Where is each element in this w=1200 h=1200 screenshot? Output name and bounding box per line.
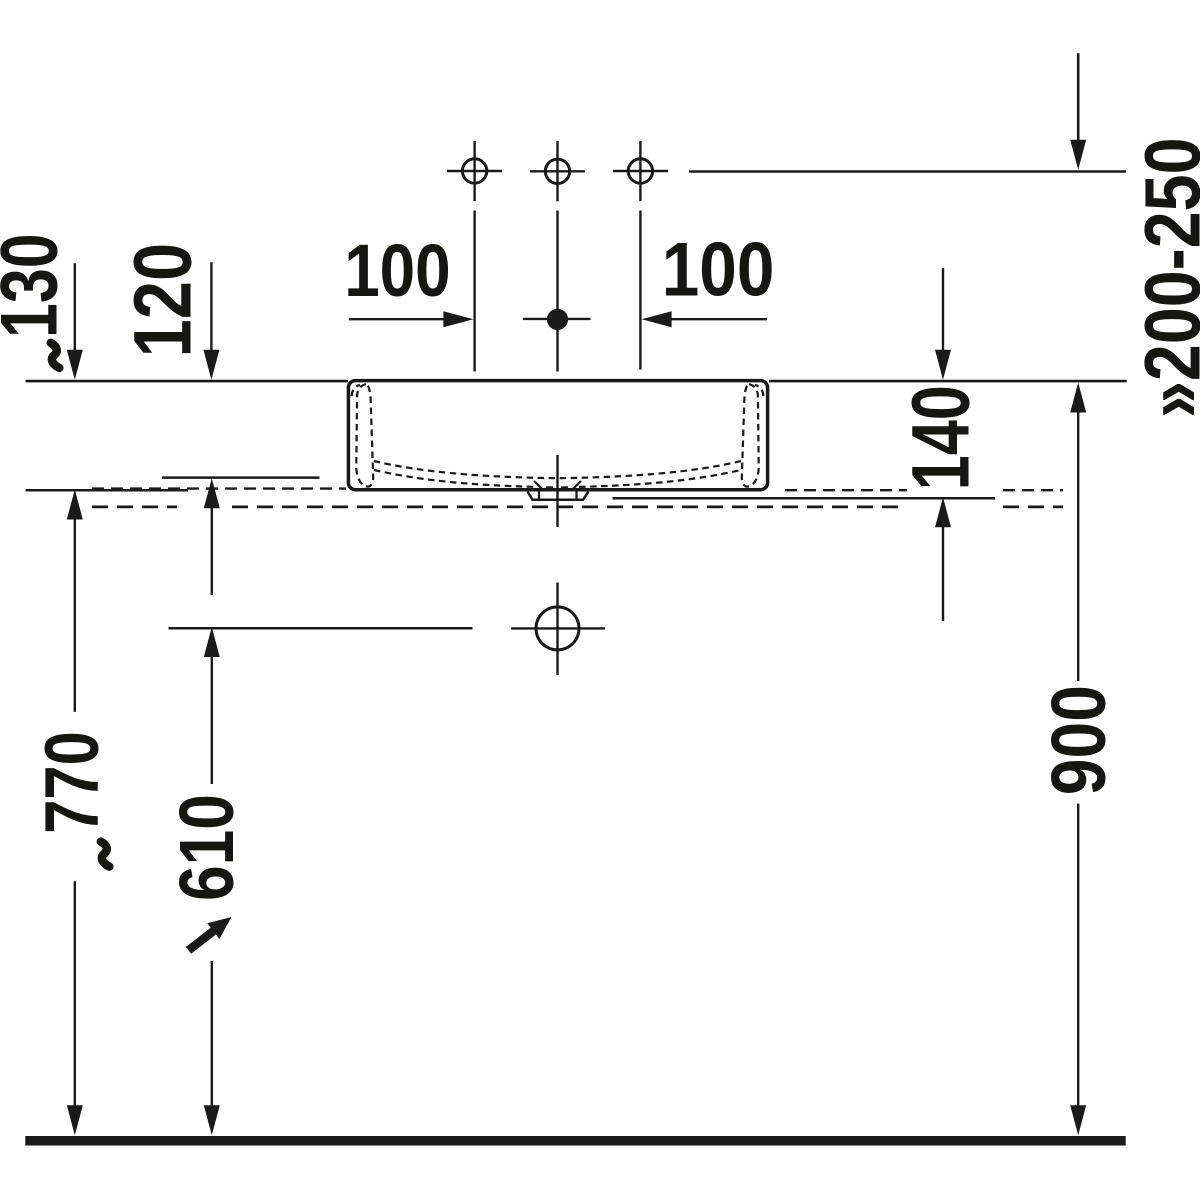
tilde of label ~770: [101, 842, 110, 867]
arrowhead 200-250 down: [1070, 140, 1086, 170]
200-250 dimension line upper: [1077, 53, 1080, 141]
drain center line: [556, 455, 558, 527]
countertop dashed top-right: [785, 489, 907, 491]
dimension line 610 lower: [211, 961, 213, 1107]
right basin-top reference line: [769, 380, 1127, 383]
svg-text:610: 610: [164, 794, 250, 901]
dimension line 770 lower: [74, 881, 76, 1107]
arrowhead 120 down: [203, 350, 219, 380]
floor line: [25, 1136, 1125, 1146]
arrowhead 130 down: [67, 350, 83, 380]
dimension line 130: [74, 263, 76, 351]
faucet hole circle 3: [628, 159, 652, 183]
drain tick left: [538, 492, 540, 500]
svg-text:»200-250: »200-250: [1129, 138, 1200, 419]
dimension line 770 upper: [74, 518, 76, 712]
svg-text:900: 900: [1036, 685, 1122, 795]
dimension line 100 left: [349, 318, 445, 320]
faucet reference line: [689, 170, 1126, 173]
basin inner wall right (dashed): [742, 384, 759, 486]
arrowhead 610 top up: [204, 627, 220, 657]
drain tick right: [575, 492, 577, 500]
under-basin line: [613, 497, 996, 500]
countertop dashed top-left: [92, 487, 346, 489]
adjustability arrow for 610: [186, 917, 232, 954]
arrow tail at line B: [211, 507, 213, 596]
arrowhead 900 top up: [1070, 383, 1086, 413]
extension line below circle 3: [639, 211, 641, 370]
svg-text:120: 120: [118, 243, 209, 358]
dimension line 900 upper: [1077, 411, 1079, 682]
arrowhead 100 left (pointing right): [443, 311, 473, 327]
faucet hole circle 1 crosshair: [447, 170, 502, 172]
arrowhead 100 right (pointing left): [642, 311, 672, 327]
drain diagonal left: [534, 481, 543, 490]
syphon circle: [536, 607, 579, 650]
washbasin outline: [348, 381, 767, 490]
svg-text:140: 140: [895, 385, 986, 490]
basin bowl upper contour (dashed): [374, 461, 741, 478]
dimension line 900 lower: [1077, 804, 1079, 1107]
arrowhead 140 bottom up: [935, 497, 951, 527]
center extension line below circle 2: [556, 211, 558, 372]
svg-text:100: 100: [344, 229, 451, 312]
faucet hole circle 1: [462, 159, 486, 183]
arrowhead 140 top down: [935, 350, 951, 380]
fixing point dot line: [523, 318, 591, 320]
arrowhead 900 bottom down: [1070, 1105, 1086, 1135]
svg-text:100: 100: [662, 228, 775, 313]
svg-text:770: 770: [30, 731, 115, 834]
dimension line 140 lower: [942, 525, 944, 621]
countertop line A: [26, 489, 188, 492]
dimension line 610 upper: [211, 655, 213, 784]
dimension line 140 upper: [942, 268, 944, 352]
countertop dashed bottom: [92, 505, 177, 508]
dimension line 120: [210, 262, 212, 351]
drain center dashes: [546, 486, 553, 488]
basin bowl lower contour right (dashed): [579, 470, 741, 487]
extension line below circle 1: [473, 211, 475, 372]
drain body: [528, 492, 589, 500]
arrowhead at line B up: [204, 478, 220, 508]
syphon crosshair: [511, 627, 605, 629]
dimension line 100 right: [670, 318, 767, 320]
basin corner arc left (dashed): [352, 385, 360, 396]
arrowhead 770 bottom down: [67, 1105, 83, 1135]
svg-text:130: 130: [0, 233, 75, 338]
left basin-top reference line: [26, 380, 348, 383]
arrowhead 770 top up: [67, 490, 83, 520]
syphon reference line C: [169, 627, 473, 630]
arrowhead 610 bottom down: [204, 1105, 220, 1135]
faucet hole circle 2 crosshair: [530, 170, 585, 172]
basin corner arc right (dashed): [755, 385, 763, 396]
tilde of label ~130: [51, 343, 60, 368]
faucet hole circle 3 crosshair: [613, 170, 668, 172]
drain diagonal right: [572, 481, 581, 490]
basin bowl lower contour left (dashed): [374, 470, 536, 487]
fixing point dot: [547, 309, 568, 330]
basin inner wall left (dashed): [356, 384, 373, 486]
countertop line B: [162, 476, 320, 479]
faucet hole circle 2: [545, 159, 569, 183]
